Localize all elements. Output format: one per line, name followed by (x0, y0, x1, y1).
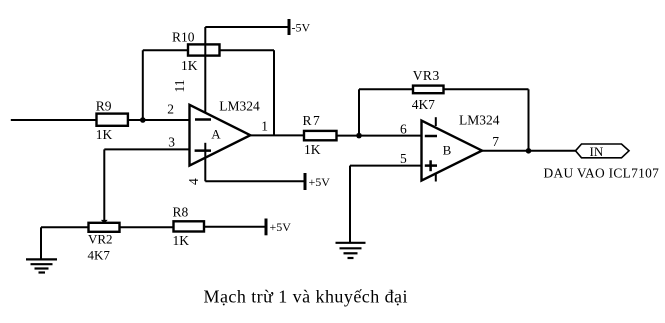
svg-text:4K7: 4K7 (88, 247, 111, 262)
wire R7 to op-amp B pin 6 (337, 135, 422, 137)
plus sign (pin 5 non-inverting) (425, 164, 437, 167)
wire VR2 left to ground (41, 226, 89, 228)
potentiometer VR3 (413, 86, 444, 94)
minus sign (pin 6 inverting) (425, 135, 437, 138)
svg-text:VR2: VR2 (88, 231, 113, 246)
junction node pin6 (356, 133, 362, 139)
wire VR3 right vertical down to output (528, 89, 530, 151)
potentiometer VR2 (89, 223, 120, 232)
plus sign (pin 3 non-inverting) (195, 149, 211, 152)
junction node pin2 (140, 117, 146, 123)
svg-text:6: 6 (400, 122, 407, 137)
wire VR3 left horizontal (359, 88, 413, 90)
resistor R7 (304, 131, 337, 140)
wire R9 to op-amp A pin 2 (128, 119, 190, 121)
wire op-amp A output to R7 (250, 134, 304, 136)
net flag IN (576, 144, 630, 158)
svg-text:DAU VAO ICL7107: DAU VAO ICL7107 (544, 166, 660, 181)
svg-text:1K: 1K (304, 142, 321, 157)
wire pin 11 vertical power (204, 27, 206, 114)
svg-text:R10: R10 (172, 29, 195, 44)
op-amp U1B LM324 (422, 121, 483, 181)
junction node output (526, 148, 532, 154)
svg-text:5: 5 (400, 151, 407, 166)
svg-text:1K: 1K (181, 58, 198, 73)
wire pin 3 horizontal (104, 148, 189, 150)
wire output op-amp B to IN flag (482, 150, 576, 152)
resistor R8 (174, 221, 205, 231)
ground (op-amp B pin 5) (336, 243, 366, 258)
svg-text:4K7: 4K7 (412, 97, 435, 112)
resistor R10 (188, 44, 220, 55)
svg-text:+5V: +5V (270, 220, 292, 234)
wire top rail to -5V (205, 26, 289, 28)
svg-text:VR3: VR3 (413, 68, 440, 83)
svg-text:R8: R8 (173, 204, 189, 219)
wire pin 4 horizontal to +5V (205, 180, 305, 182)
svg-text:1K: 1K (96, 127, 113, 142)
wire pin 4 vertical (with plus vertical) (204, 143, 206, 182)
power -5V (288, 19, 291, 35)
wire VR3 left vertical (358, 89, 360, 135)
svg-text:Mạch trừ 1 và khuyếch đại: Mạch trừ 1 và khuyếch đại (204, 287, 408, 307)
svg-text:-5V: -5V (292, 21, 311, 35)
wiper arrow VR2 (101, 220, 108, 224)
power stub bottom (B) (435, 173, 437, 182)
svg-text:A: A (211, 126, 221, 141)
svg-text:R9: R9 (96, 98, 112, 113)
op-amp U1A LM324 (190, 105, 251, 166)
wire R10 right vertical down to output (273, 50, 275, 135)
svg-text:4: 4 (186, 178, 201, 185)
wire VR3 right horizontal (444, 88, 529, 90)
wire feedback left vertical (142, 50, 144, 120)
svg-text:1: 1 (261, 118, 268, 133)
svg-text:+5V: +5V (309, 175, 331, 189)
wire feedback left horizontal to R10 (143, 49, 188, 51)
svg-text:IN: IN (590, 144, 604, 159)
svg-text:2: 2 (167, 101, 174, 116)
svg-text:LM324: LM324 (219, 99, 260, 114)
wire R8 to +5V (204, 226, 266, 228)
svg-text:B: B (443, 143, 452, 158)
svg-text:11: 11 (172, 80, 187, 93)
wire VR2 right to R8 (120, 226, 174, 228)
resistor R9 (97, 114, 128, 126)
power stub top (B) (435, 117, 437, 126)
wire R10 right horizontal (220, 49, 275, 51)
svg-text:R7: R7 (303, 113, 322, 128)
svg-text:1K: 1K (173, 233, 190, 248)
svg-text:7: 7 (492, 134, 499, 149)
wire ground vertical (VR2) (40, 227, 42, 259)
svg-text:3: 3 (168, 134, 175, 149)
power +5V (R8) (265, 219, 268, 236)
wire pin 5 vertical to ground (349, 166, 351, 243)
wire input left to R9 (11, 119, 97, 121)
wire pin 3 vertical down to VR2 wiper (103, 149, 105, 220)
power +5V (pin 4) (304, 173, 307, 190)
minus sign (pin 2 inverting) (195, 118, 211, 121)
ground (VR2) (26, 259, 57, 272)
svg-text:LM324: LM324 (459, 112, 500, 127)
wire pin 5 horizontal (350, 165, 422, 167)
